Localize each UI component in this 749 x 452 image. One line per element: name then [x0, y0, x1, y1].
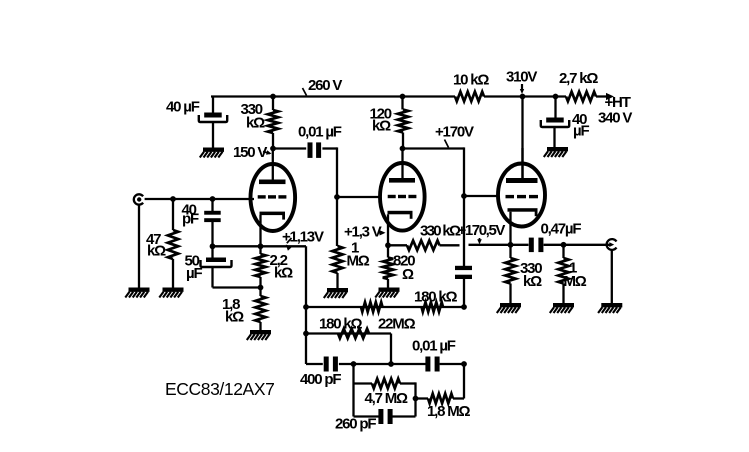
svg-text:Ω: Ω: [402, 266, 414, 283]
wire: DC couple down to V2 grid: [463, 147, 465, 196]
svg-text:0,47µF: 0,47µF: [541, 221, 582, 238]
ground (under input jack): [125, 288, 149, 298]
wire: rail to 120k: [401, 97, 403, 110]
node: feedback junction B: [303, 304, 309, 310]
ground (under 1,8k): [247, 330, 271, 340]
wire: +260V HT rail: [211, 95, 609, 97]
label kohm (anode load): [246, 115, 265, 132]
resistor 180 kohm (line B): [422, 302, 444, 312]
node: box right junction: [413, 396, 419, 402]
label kohm (cathode load): [523, 273, 542, 290]
label 1,8: [222, 296, 240, 313]
label uF (right cap): [573, 123, 589, 140]
label 400 pF: [300, 371, 341, 388]
label uF (50uF): [186, 265, 202, 282]
svg-text:180 kΩ: 180 kΩ: [319, 316, 363, 333]
output jack: [607, 239, 617, 250]
label kohm (120k): [372, 118, 391, 135]
svg-text:150 V: 150 V: [233, 144, 267, 161]
label 2,7 kohm: [559, 70, 598, 87]
svg-text:MΩ: MΩ: [564, 273, 587, 290]
wire: input line to V1a grid: [145, 198, 254, 200]
label +170,5V with tick: [458, 222, 506, 244]
triode V1b: [380, 149, 425, 246]
wire: rail to right 40uF: [554, 97, 556, 118]
label 340 V: [598, 110, 632, 127]
svg-text:+HT: +HT: [605, 94, 631, 111]
label 22Mohm: [378, 316, 416, 333]
wire: anode node to coupling cap: [273, 147, 306, 149]
label ECC83/12AX7: [165, 379, 274, 399]
label ohm (820): [402, 266, 414, 283]
node: rail left cap junction: [212, 97, 214, 113]
resistor 2,7 kohm (HT dropper): [566, 92, 596, 102]
label 310V with tick: [506, 69, 537, 95]
capacitor 0,47 uF (output coupling): [529, 238, 544, 253]
node: V2 grid junction: [461, 193, 467, 199]
wire: box left edge: [352, 364, 354, 417]
svg-text:pF: pF: [182, 211, 199, 228]
label 330 (anode load): [241, 101, 263, 118]
svg-text:10 kΩ: 10 kΩ: [453, 72, 489, 89]
svg-text:0,01 µF: 0,01 µF: [298, 124, 342, 141]
node: 47k junction: [170, 196, 176, 202]
svg-text:0,01 µF: 0,01 µF: [412, 338, 456, 355]
svg-text:400 pF: 400 pF: [300, 371, 341, 388]
wire: coupling cap to V1b grid: [322, 147, 337, 197]
wire: 50uF down and right: [213, 267, 261, 288]
resistor 1,8 Mohm: [428, 394, 453, 404]
svg-text:260 pF: 260 pF: [335, 416, 376, 433]
label 1 (output load): [569, 260, 577, 277]
label 50: [185, 253, 200, 270]
svg-text:310V: 310V: [506, 69, 537, 86]
resistor 4,7 Mohm: [372, 379, 400, 389]
resistor 47 kohm (input load): [168, 230, 178, 259]
wire: V1a cathode feedback vertical: [305, 246, 307, 364]
wire: box bottom edge: [354, 415, 416, 417]
node: line C/D junction: [388, 361, 394, 367]
ground (under 330k load): [497, 303, 521, 313]
ground (under 820): [375, 288, 399, 298]
resistor 330 kohm (feedback, horizontal): [388, 241, 460, 251]
wire: rail to 330k: [272, 97, 274, 111]
resistor 330 kohm (V2 cathode load): [505, 245, 515, 303]
label 330 (cathode load): [520, 260, 542, 277]
node: rail to 330k junction: [270, 94, 276, 100]
node: vertical E at line D: [461, 361, 467, 367]
wire: output jack to ground: [611, 250, 613, 303]
svg-text:2,7 kΩ: 2,7 kΩ: [559, 70, 598, 87]
svg-text:kΩ: kΩ: [147, 243, 166, 260]
svg-text:kΩ: kΩ: [274, 265, 293, 282]
svg-text:+170,5V: +170,5V: [458, 222, 506, 239]
node: box top junction: [351, 361, 357, 367]
ground (under left 40 uF): [200, 148, 224, 158]
ground (under output jack): [598, 303, 622, 313]
node: V2 cathode junction: [508, 242, 514, 248]
ground (under output 1M): [550, 303, 574, 313]
wire: feedback line C: [306, 334, 391, 365]
wire: 310V rail to V2 anode: [521, 97, 523, 180]
wire: junction to 40pF: [211, 199, 213, 211]
resistor 180 kohm (line C): [338, 329, 369, 339]
label kohm (input load): [147, 243, 166, 260]
label 180 kohm (line C): [319, 316, 363, 333]
ground (under 47k): [159, 288, 183, 298]
resistor 330 kohm (V1a anode load): [268, 110, 278, 133]
wire: 0,01uF to vertical E: [440, 363, 464, 365]
arrow to +HT: [606, 93, 614, 100]
label +HT: [605, 94, 631, 111]
wire: 1M to ground: [336, 273, 338, 288]
input jack: [134, 194, 143, 204]
wire: grid junction to V2 grid: [464, 195, 499, 197]
svg-text:µF: µF: [186, 265, 202, 282]
resistor 22 Mohm: [361, 302, 383, 312]
wire: right 40uF to ground: [553, 127, 555, 147]
wire: input jack to ground: [138, 205, 140, 288]
triode V1a: [250, 149, 295, 247]
wire: anode node to DC couple corner: [403, 147, 465, 149]
label 180 kohm (line B): [414, 289, 458, 306]
ground (under right 40 uF): [544, 147, 568, 157]
resistor 820 ohm (V1b cathode): [383, 245, 393, 287]
node: V1b anode junction: [400, 146, 406, 152]
capacitor 260 pF: [378, 409, 392, 424]
svg-text:330 kΩ: 330 kΩ: [420, 223, 461, 240]
resistor 1 Mohm (output load): [558, 245, 568, 303]
label 10 kohm: [453, 72, 489, 89]
svg-text:1,8 MΩ: 1,8 MΩ: [427, 403, 471, 420]
label 0,47 uF: [541, 221, 582, 238]
node: 2,2k/1,8k junction: [258, 285, 264, 291]
label 150 V with arrow: [233, 144, 272, 161]
label +1,13V with arrow: [282, 229, 324, 251]
svg-text:22MΩ: 22MΩ: [378, 316, 416, 333]
wire: grid junction to V1b grid: [337, 196, 379, 198]
ground (under 1 Mohm): [324, 288, 348, 298]
svg-text:340 V: 340 V: [598, 110, 632, 127]
svg-text:kΩ: kΩ: [246, 115, 265, 132]
label 47: [146, 231, 161, 248]
wire: 40pF to cathode line: [211, 222, 213, 247]
label pF (40pF): [182, 211, 199, 228]
svg-text:180 kΩ: 180 kΩ: [414, 289, 458, 306]
wire: vertical E lower segment: [463, 364, 465, 399]
node: V1b cathode junction: [385, 242, 391, 248]
label 1 (grid leak): [351, 240, 359, 257]
label Mohm (output load): [564, 273, 587, 290]
wire: V1a cathode line: [213, 245, 307, 247]
label 0,01 uF (lower): [412, 338, 456, 355]
label kohm (2,2k): [274, 265, 293, 282]
wire: 120k to anode node: [402, 133, 404, 149]
wire: cathode line to V2 cathode: [469, 244, 511, 246]
resistor 10 kohm (HT dropper): [455, 92, 484, 102]
capacitor 40 pF (grid-cathode): [204, 211, 221, 222]
node: 1M output junction: [561, 242, 567, 248]
wire: junction to 47k: [172, 199, 174, 230]
wire: 40uF to ground: [212, 122, 214, 148]
node: cathode line left junction: [210, 243, 216, 249]
label 2,2: [270, 252, 288, 269]
svg-text:kΩ: kΩ: [372, 118, 391, 135]
resistor 2,2 kohm (V1a cathode): [255, 246, 265, 287]
node: V1b grid junction: [334, 194, 340, 200]
wire: V2 grid node down to feedback cap: [463, 196, 465, 266]
wire: 1,8M line: [416, 397, 465, 399]
wire: 400pF to 0,01uF: [339, 363, 426, 365]
svg-text:ECC83/12AX7: ECC83/12AX7: [165, 379, 274, 399]
capacitor (feedback takeoff, on vertical): [455, 266, 472, 279]
wire: cathode line to 50uF: [211, 246, 213, 257]
resistor 1 Mohm (V1b grid leak): [332, 246, 342, 273]
svg-text:kΩ: kΩ: [523, 273, 542, 290]
wire: grid junction down to 1M: [336, 197, 338, 246]
triode V2 (cathode follower): [498, 148, 545, 245]
label 40 (pF cap): [182, 202, 197, 219]
label 820: [393, 253, 415, 270]
label kohm (1,8k): [225, 309, 244, 326]
svg-text:260 V: 260 V: [308, 77, 342, 94]
label 1,8 Mohm: [427, 403, 471, 420]
label 40 uF (left): [166, 99, 200, 116]
wire: V2 cathode to output cap: [511, 244, 529, 246]
wire: feedback line B: [306, 306, 464, 308]
label 330 kohm (feedback): [420, 223, 461, 240]
label +170V with leader: [435, 124, 474, 148]
node: 310V junction to V2 anode: [520, 94, 526, 100]
label 260 pF: [335, 416, 376, 433]
capacitor 0,01 uF (interstage coupling): [308, 142, 322, 158]
wire: 47k to ground: [172, 259, 174, 288]
svg-text:kΩ: kΩ: [225, 309, 244, 326]
capacitor 40 uF (right smoothing): [541, 118, 569, 128]
label 4,7 Mohm: [365, 390, 409, 407]
capacitor 50 uF (cathode bypass): [201, 258, 232, 268]
resistor 120 kohm (V1b anode load): [398, 110, 408, 133]
capacitor 400 pF: [324, 357, 338, 372]
svg-text:MΩ: MΩ: [347, 253, 370, 270]
wire: feedback line D left: [306, 363, 323, 365]
svg-text:40 µF: 40 µF: [166, 99, 200, 116]
capacitor 40 uF (left reservoir): [199, 113, 227, 123]
svg-text:+1,13V: +1,13V: [282, 229, 324, 246]
resistor 1,8 kohm (cathode lower): [255, 288, 265, 331]
node: line B right junction: [461, 304, 467, 310]
label 260 V with leader: [303, 77, 343, 96]
wire: 330k to anode node: [272, 133, 274, 149]
node: V1a anode 150V: [270, 146, 276, 152]
capacitor 0,01 uF (lower): [425, 357, 439, 372]
label Mohm (grid leak): [347, 253, 370, 270]
node: 40pF junction: [210, 196, 216, 202]
label 120: [370, 106, 392, 123]
label 40 (right cap): [572, 111, 587, 128]
wire: box top edge: [354, 382, 416, 384]
svg-text:4,7 MΩ: 4,7 MΩ: [365, 390, 409, 407]
label +1,3 V with arrow: [344, 224, 386, 241]
wire: box right edge: [414, 382, 416, 416]
label 0,01 uF (upper): [298, 124, 342, 141]
wire: output cap to jack: [544, 244, 610, 246]
svg-text:+170V: +170V: [435, 124, 474, 141]
svg-text:+1,3 V: +1,3 V: [344, 224, 382, 241]
node: V1a cathode junction: [258, 243, 264, 249]
node: rail right cap junction: [553, 94, 559, 100]
node: rail to 120k junction: [400, 94, 406, 100]
node: feedback junction C: [303, 331, 309, 337]
wire: feedback cap down to network: [463, 279, 465, 307]
svg-text:µF: µF: [573, 123, 589, 140]
